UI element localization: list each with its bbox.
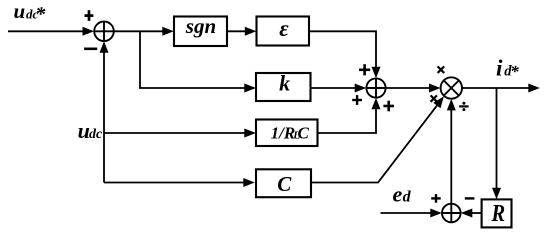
svg-text:u: u [78, 118, 90, 143]
svg-text:R: R [491, 199, 506, 226]
wire J3 up to multiplier divide input [450, 108, 452, 204]
svg-text:*: * [510, 62, 519, 81]
arrowhead k into J2 left [355, 84, 367, 93]
multiplier-divider junction [441, 77, 462, 98]
wire J2 to multiplier [386, 87, 432, 89]
wire C output and diagonal to multiplier [311, 103, 439, 182]
wire J1 to sgn [114, 30, 165, 32]
block 1/RLC [256, 120, 318, 147]
svg-text:u: u [14, 0, 26, 23]
arrowhead into eps [245, 27, 256, 36]
arrowhead eps into J2 top [372, 67, 381, 79]
text 1/RLC [271, 123, 310, 142]
sign minus at J3 [465, 197, 475, 199]
sign plus at J2 left-bottom [352, 95, 362, 105]
block C [256, 169, 311, 197]
sign plus at J1 [85, 10, 94, 21]
block R [482, 199, 512, 227]
svg-text:k: k [279, 71, 290, 96]
arrowhead J2 into multiplier left [429, 84, 441, 93]
svg-text:*: * [35, 3, 46, 25]
label id* output [496, 55, 519, 81]
arrowhead into 1/RLC [244, 129, 256, 138]
wire sgn to eps [227, 30, 248, 32]
block k [256, 73, 311, 101]
summing junction J2 [366, 78, 385, 97]
arrowhead J1 bottom input [100, 41, 109, 53]
wire ed input [381, 212, 435, 214]
label udc mid-left [78, 118, 103, 143]
sign plus at J2 top [359, 64, 370, 75]
svg-text:sgn: sgn [185, 14, 216, 38]
arrowhead J3 output into multiplier bottom [447, 99, 456, 111]
wire 1/RLC to J2 bottom [318, 107, 377, 133]
wire udc node vertical [103, 50, 105, 183]
arrowhead output id* [528, 84, 540, 93]
wire udc to 1/RLC [104, 132, 247, 134]
wire udc to C [104, 182, 246, 184]
arrowhead into J1 [83, 27, 95, 36]
sign plus at J2 bottom-right [383, 101, 394, 112]
block epsilon [257, 17, 310, 46]
sign divide [459, 102, 468, 111]
arrowhead into R top [492, 188, 501, 200]
wire branch down to R [496, 88, 498, 191]
wire R to J3 [470, 212, 482, 214]
sign minus at J1 [84, 47, 97, 50]
summing junction J3 [442, 204, 461, 223]
wire multiplier output id* [462, 87, 531, 89]
svg-text:e: e [393, 181, 403, 206]
arrowhead R into J3 pointing left [461, 209, 473, 218]
svg-text:d: d [403, 188, 412, 205]
svg-text:dc: dc [89, 127, 103, 142]
svg-text:C: C [277, 172, 292, 196]
svg-text:1/R: 1/R [271, 123, 296, 142]
svg-text:i: i [496, 55, 503, 80]
svg-text:C: C [298, 123, 310, 142]
arrowhead 1/RLC into J2 bottom [372, 98, 381, 110]
arrowhead into C [243, 178, 255, 187]
arrowhead ed into J3 [430, 209, 442, 218]
label ed [393, 181, 412, 206]
svg-text:ε: ε [279, 16, 289, 41]
arrowhead into sgn [162, 27, 174, 36]
arrowhead into k [244, 84, 256, 93]
label udc* top-left [14, 0, 47, 25]
sign multiply top [438, 66, 445, 73]
wire eps to J2 top [309, 31, 376, 69]
block sgn [174, 17, 227, 47]
wire branch down to k [140, 31, 247, 88]
sign plus at J3 [431, 194, 441, 203]
summing junction J1 [94, 22, 114, 42]
text R [491, 199, 506, 226]
arrowhead diagonal into multiplier [433, 96, 444, 108]
sign multiply lower-left [431, 95, 437, 101]
wire k to J2 left [311, 87, 359, 89]
wire input udc* [8, 30, 86, 32]
